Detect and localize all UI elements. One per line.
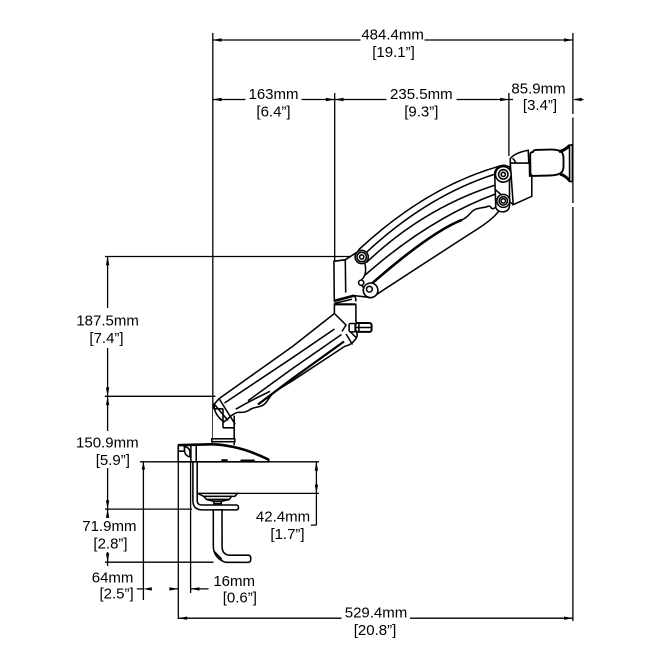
gas spring upper link	[357, 165, 512, 262]
tick line y=256.5 to elbow pivot	[105, 256, 356, 258]
lower link cover wave line	[462, 206, 497, 220]
extension line desk edge (x=143.0)	[142, 462, 144, 600]
extension line wall plate (x=572.9)	[572, 33, 574, 621]
clamp plate top ticks	[191, 445, 196, 462]
extension line left (pole left edge, x=212.8)	[212, 33, 214, 445]
extension line head bracket (x=508.9)	[508, 93, 510, 156]
elbow bracket step to arm	[354, 296, 356, 302]
svg-text:85.9mm: 85.9mm	[511, 81, 565, 98]
gas spring lower link	[359, 193, 506, 297]
head pivot 2 hole	[501, 199, 505, 203]
svg-text:235.5mm: 235.5mm	[390, 86, 453, 103]
base clamp hook tab	[178, 446, 184, 452]
clamp back plate	[193, 462, 239, 510]
elbow pivot 1 ring	[357, 252, 366, 261]
extension line elbow (x=334.7)	[334, 93, 336, 262]
dimension 163mm / 235.5mm / 85.9mm line y=99.5	[213, 99, 584, 101]
lower arm inner cover line	[236, 391, 270, 409]
head cap inner curve	[513, 158, 516, 163]
lower arm facet lines	[214, 314, 356, 425]
lower arm thick accent	[258, 342, 344, 405]
extension line clamp plate (x=190.6)	[190, 446, 192, 593]
elbow pivot 3 hole	[367, 286, 373, 292]
ball joint capsule	[530, 150, 563, 176]
lower arm cap internal edges	[213, 409, 234, 428]
svg-text:16mm: 16mm	[213, 573, 255, 590]
riser pole	[213, 409, 234, 445]
elbow bracket slab	[334, 253, 368, 301]
elbow bracket inner edge	[344, 260, 346, 293]
lower link thick accent	[368, 220, 462, 287]
svg-text:[5.9”]: [5.9”]	[96, 452, 130, 469]
svg-text:[2.5”]: [2.5”]	[100, 585, 134, 602]
svg-text:[1.7”]: [1.7”]	[270, 526, 304, 543]
head pivot 1 lobe	[496, 167, 512, 183]
arm block top double line	[334, 303, 355, 305]
desk bottom line	[238, 492, 320, 494]
base plate top thick curve	[178, 444, 269, 460]
svg-text:[2.8”]: [2.8”]	[93, 536, 127, 553]
upper link inner line	[362, 172, 502, 257]
head bracket body	[510, 163, 532, 205]
svg-text:71.9mm: 71.9mm	[82, 518, 136, 535]
elbow bracket bottom thick edge	[334, 296, 354, 301]
svg-text:[0.6”]: [0.6”]	[223, 590, 257, 607]
elbow pivot 1 lobe	[355, 250, 368, 263]
head bracket cap	[510, 150, 529, 163]
base plate shadow dashes	[221, 459, 254, 461]
svg-text:[7.4”]: [7.4”]	[89, 330, 123, 347]
head bracket lower-left edge	[495, 189, 514, 205]
svg-text:[6.4”]: [6.4”]	[256, 104, 290, 121]
dimension 484.4mm line y=40	[213, 39, 573, 41]
head pivot 1 ring	[499, 170, 508, 179]
svg-text:163mm: 163mm	[248, 86, 298, 103]
elbow pivot 3 lobe	[363, 283, 378, 298]
head pivot 2 ring	[499, 197, 507, 205]
desk top line	[140, 461, 319, 463]
tension screw knob	[349, 323, 372, 332]
head pivot 1 hole	[501, 172, 505, 176]
elbow pivot 1 hole	[360, 255, 364, 259]
head pivot 2 lobe	[497, 194, 510, 207]
svg-text:64mm: 64mm	[92, 569, 134, 586]
lower arm body	[214, 304, 358, 422]
svg-text:[3.4”]: [3.4”]	[523, 97, 557, 114]
clamp pad	[198, 493, 238, 496]
head pivot plate	[495, 167, 510, 212]
svg-text:[19.1”]: [19.1”]	[372, 44, 415, 61]
VESA plate	[570, 145, 573, 182]
tick line y=396.3 to lower arm	[105, 395, 216, 397]
pole collar	[212, 439, 235, 442]
svg-text:42.4mm: 42.4mm	[256, 509, 310, 526]
svg-text:[20.8”]: [20.8”]	[354, 622, 397, 639]
pole right edge	[233, 416, 235, 446]
base plate	[178, 444, 269, 462]
svg-text:484.4mm: 484.4mm	[361, 27, 424, 44]
dimension 64mm / 16mm line y=588.9	[137, 588, 209, 590]
dimension 529.4mm line y=618.2	[178, 617, 573, 619]
tick line y=562.2 to clamp foot	[105, 561, 214, 563]
ball joint flares	[559, 145, 570, 181]
base clamp hook curve	[185, 447, 191, 457]
extension line clamp left (x=178.3)	[177, 454, 179, 620]
svg-text:187.5mm: 187.5mm	[76, 313, 139, 330]
elbow pivot 2 hole	[359, 280, 364, 285]
svg-text:150.9mm: 150.9mm	[76, 435, 139, 452]
svg-text:[9.3”]: [9.3”]	[404, 104, 438, 121]
dimension 42.4mm line x=316.4	[311, 462, 317, 525]
left dimension line x=107.6 (187.5 / 150.9 / 71.9)	[107, 257, 109, 567]
svg-text:529.4mm: 529.4mm	[345, 604, 408, 621]
clamp screw shaft and handle foot	[213, 510, 251, 563]
tick line y=509.1 to clamp	[105, 508, 192, 510]
clamp screw bend mitre line	[214, 552, 222, 560]
